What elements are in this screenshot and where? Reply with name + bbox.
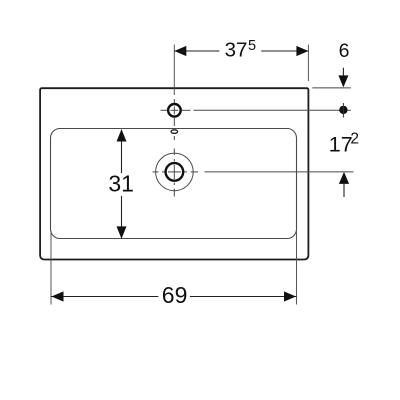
svg-text:31: 31	[108, 171, 134, 197]
svg-text:2: 2	[350, 130, 359, 147]
svg-text:37: 37	[225, 38, 248, 61]
svg-text:69: 69	[162, 282, 188, 308]
svg-text:6: 6	[339, 40, 350, 62]
svg-text:17: 17	[329, 132, 353, 156]
svg-text:5: 5	[248, 38, 256, 54]
